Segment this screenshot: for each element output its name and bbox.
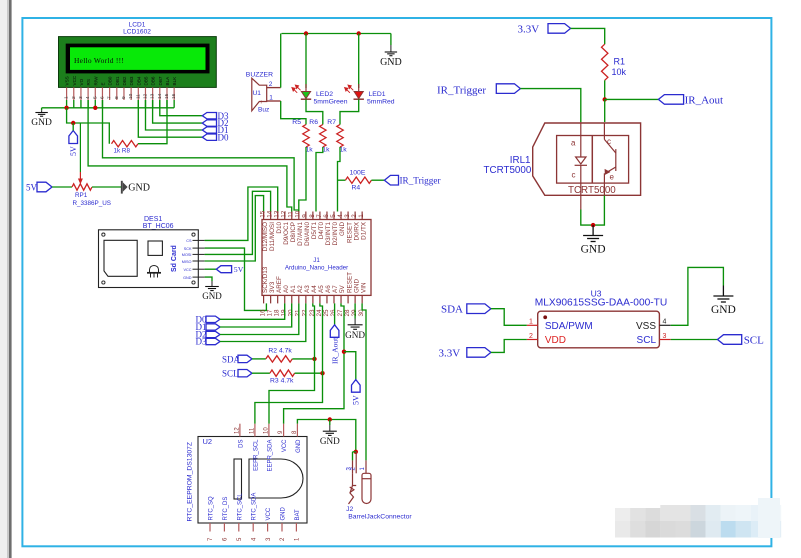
svg-text:25: 25: [323, 309, 330, 317]
svg-text:Hello World !!!: Hello World !!!: [74, 56, 124, 65]
svg-text:R5: R5: [292, 119, 301, 126]
J1 bottom pin 21 A2: [298, 295, 300, 303]
wire U3 SCL to port: [671, 339, 718, 341]
svg-text:18: 18: [274, 309, 281, 317]
svg-text:A1: A1: [290, 285, 297, 293]
resistor R3 4.7k: [270, 370, 295, 376]
svg-text:5V: 5V: [69, 146, 78, 156]
svg-text:D8/ICP: D8/ICP: [290, 222, 297, 242]
svg-text:D0: D0: [218, 132, 229, 142]
svg-text:8: 8: [309, 214, 316, 218]
svg-text:D0/RX: D0/RX: [353, 221, 360, 240]
junction LCD bus pin1: [64, 106, 68, 110]
wire J2 pins: [353, 451, 357, 453]
svg-text:c: c: [572, 171, 576, 180]
wire SDA to R2: [252, 358, 266, 360]
junction 5V net: [342, 350, 346, 354]
svg-text:100E: 100E: [350, 170, 366, 177]
J1 bottom pin 20 A1: [291, 295, 293, 303]
U2 top pin 8 GND: [296, 424, 298, 437]
J1 bottom pin 16 SCK/D13: [263, 295, 265, 303]
U2 bottom pin 7 RTC_SQ: [209, 523, 211, 532]
U2 top pin 10 EEPR_SDA: [268, 424, 270, 437]
svg-text:5V: 5V: [26, 183, 38, 193]
svg-text:RTC_SDA: RTC_SDA: [252, 493, 258, 521]
wire R5 to nano D6: [299, 147, 306, 212]
svg-text:5mmGreen: 5mmGreen: [314, 99, 348, 106]
svg-text:R3 4.7k: R3 4.7k: [270, 377, 294, 384]
J1 top pin 5 D2/INT0: [333, 212, 335, 220]
buzzer pin 1 stub: [267, 100, 281, 102]
svg-text:BAT: BAT: [295, 509, 301, 521]
svg-text:U2: U2: [203, 437, 213, 446]
port SCL (right): [718, 335, 742, 345]
LED1 5mmRed: [358, 34, 360, 89]
U3 pin 4 VSS: [659, 324, 670, 326]
junction ground rail: [328, 417, 332, 421]
svg-text:SCK: SCK: [184, 247, 192, 251]
svg-text:D11/MOSI: D11/MOSI: [269, 222, 276, 251]
svg-text:28: 28: [344, 309, 351, 317]
svg-text:9: 9: [121, 96, 127, 99]
wire D2 to nano A2: [220, 303, 299, 334]
svg-text:13: 13: [274, 210, 281, 218]
svg-text:7: 7: [316, 214, 323, 218]
svg-text:IR_Trigger: IR_Trigger: [437, 84, 486, 96]
wire LED1 cathode to R7: [340, 99, 359, 124]
SD module chip: [148, 241, 162, 255]
wire nano VIN to J2: [362, 303, 366, 460]
wire LCD ground bus: [42, 107, 175, 109]
port 5V (LCD): [69, 131, 78, 144]
svg-text:RTC_EEPROM_DS1307Z: RTC_EEPROM_DS1307Z: [187, 442, 194, 522]
wire D1 to nano A1: [220, 303, 292, 327]
window left edge strip: [0, 0, 8, 558]
svg-text:VCC: VCC: [183, 268, 191, 272]
SD card slot: [104, 240, 137, 276]
wire LCD pin drop: [152, 100, 154, 108]
J1 top pin 2 D0/RX: [354, 212, 356, 220]
svg-text:A4: A4: [311, 285, 318, 293]
svg-text:SCK/D13: SCK/D13: [262, 266, 269, 293]
svg-text:DB4: DB4: [136, 76, 141, 85]
port 5V (rotated): [352, 380, 361, 393]
svg-text:11: 11: [249, 427, 255, 434]
J1 bottom pin 19 A0: [284, 295, 286, 303]
junction 5V tap: [71, 121, 75, 125]
svg-text:R2 4.7k: R2 4.7k: [268, 348, 292, 355]
svg-text:R7: R7: [327, 119, 336, 126]
svg-text:10: 10: [128, 93, 134, 99]
svg-text:2: 2: [351, 214, 358, 218]
svg-text:R_3386P_US: R_3386P_US: [73, 200, 112, 207]
IC U2 RTC_EEPROM_DS1307Z body: [198, 437, 307, 524]
svg-text:1k R8: 1k R8: [114, 148, 131, 155]
wire SD CS to nano: [205, 187, 278, 240]
J1 bottom pin 27 5V: [340, 295, 342, 303]
U2 top pin 12 DS: [239, 424, 241, 437]
svg-text:27: 27: [337, 309, 344, 317]
wire SCL to R3: [252, 372, 270, 374]
svg-text:GND: GND: [128, 183, 150, 194]
wire R7 to nano D3 / R4: [338, 147, 341, 212]
svg-text:1: 1: [358, 214, 365, 218]
wire LCD E to nano bundle: [88, 100, 292, 212]
svg-text:12: 12: [142, 93, 148, 99]
svg-text:J2: J2: [346, 506, 353, 513]
wire LCD pin drop: [87, 100, 89, 108]
svg-text:J1: J1: [313, 257, 320, 264]
wire LCD pin drop: [66, 100, 68, 108]
svg-text:D12/MISO: D12/MISO: [262, 222, 269, 251]
svg-text:c: c: [607, 137, 611, 146]
U2 bottom pin 2 GND: [281, 523, 283, 532]
J1 bottom pin 22 A3: [305, 295, 307, 303]
J1 top pin 7 D4/T0: [319, 212, 321, 220]
svg-text:D10: D10: [276, 222, 283, 234]
svg-text:A2: A2: [297, 285, 304, 293]
port D2 (upper): [202, 120, 216, 126]
IC U3 MLX90615 body: [538, 311, 660, 348]
svg-text:12: 12: [281, 210, 288, 218]
svg-text:10: 10: [263, 427, 269, 434]
svg-text:BarrelJackConnector: BarrelJackConnector: [348, 514, 412, 521]
wire R8 to BLA pin15: [138, 100, 167, 144]
U2 bottom pin 3 VCC: [267, 523, 269, 532]
wire LCD pin drop: [101, 100, 103, 108]
svg-text:3.3V: 3.3V: [439, 348, 461, 360]
wire sensor cathode to ground: [580, 196, 582, 210]
svg-text:R/W: R/W: [93, 76, 98, 86]
wire RTC ground rail: [297, 420, 355, 452]
svg-text:GND: GND: [353, 279, 360, 293]
wire LCD pin drop: [80, 100, 82, 108]
svg-text:BLA: BLA: [165, 76, 170, 86]
junction LED1 rail: [357, 31, 361, 35]
svg-text:A6: A6: [325, 285, 332, 293]
svg-text:RS: RS: [86, 79, 91, 85]
svg-text:GND: GND: [320, 436, 340, 446]
svg-text:16: 16: [171, 93, 177, 99]
svg-text:BUZZER: BUZZER: [246, 72, 273, 79]
svg-text:2: 2: [269, 81, 273, 88]
J1 top pin 1 D1/TX: [361, 212, 363, 220]
svg-text:8: 8: [114, 96, 120, 99]
svg-text:+: +: [259, 99, 263, 106]
svg-text:9: 9: [302, 214, 309, 218]
wire R1 to junction: [604, 80, 606, 99]
wire LCD pin drop: [73, 100, 75, 108]
U2 bottom pin 5 RTC_SCL: [238, 523, 240, 532]
wire SD VCC to 5V port: [205, 268, 217, 270]
svg-text:3V3: 3V3: [269, 281, 276, 293]
J1 bottom pin 18 AREF: [277, 295, 279, 303]
svg-text:15: 15: [260, 210, 267, 218]
junction sensor ground: [591, 223, 595, 227]
svg-text:GND: GND: [339, 222, 346, 236]
svg-text:1: 1: [64, 96, 70, 99]
svg-text:Arduino_Nano_Header: Arduino_Nano_Header: [285, 265, 348, 272]
J1 bottom pin 26 A7: [333, 295, 335, 303]
connector J1 Arduino_Nano_Header body: [262, 220, 371, 296]
wire 3.3V to R1: [571, 28, 605, 44]
J1 top pin 10 D7/AIN1: [298, 212, 300, 220]
wire R2 to junction: [292, 358, 314, 360]
LED2 5mmGreen: [305, 34, 307, 89]
wire buzzer pin1 to R5: [281, 101, 306, 125]
svg-text:5: 5: [330, 214, 337, 218]
svg-text:D3: D3: [196, 337, 207, 347]
J1 top pin 14 D11/MOSI: [270, 212, 272, 220]
svg-text:MISO: MISO: [182, 260, 192, 264]
svg-text:GND: GND: [345, 330, 365, 340]
svg-text:11: 11: [288, 211, 295, 218]
wire LED2 cathode to R6: [306, 99, 323, 124]
wire junction down to sensor: [604, 99, 606, 122]
junction J2: [354, 450, 358, 454]
svg-text:6: 6: [99, 96, 105, 99]
LCD screen: [70, 47, 206, 70]
svg-text:DB5: DB5: [143, 76, 148, 85]
J1 bottom pin 17 3V3: [270, 295, 272, 303]
svg-text:10: 10: [295, 210, 302, 218]
svg-text:SDA: SDA: [441, 304, 463, 316]
blurred watermark: [615, 508, 630, 524]
wire nano A5 to RTC EEPR_SCL: [255, 303, 323, 423]
svg-text:RTC_DS: RTC_DS: [223, 497, 229, 521]
ground rail GND symbol: [329, 420, 331, 426]
J1 top pin 13 D10: [277, 212, 279, 220]
wire D3 to nano A3: [220, 303, 306, 341]
svg-text:VCC: VCC: [266, 507, 272, 520]
junction LED2 rail: [304, 31, 308, 35]
U2 bottom pin 4 RTC_SDA: [252, 523, 254, 532]
svg-text:VO: VO: [79, 78, 84, 85]
svg-text:10k: 10k: [612, 67, 627, 77]
svg-text:GND: GND: [202, 291, 222, 301]
svg-text:15: 15: [164, 93, 170, 99]
wire DB4 to D0: [138, 100, 202, 137]
svg-text:TCRT5000: TCRT5000: [484, 165, 532, 176]
U2 bottom pin 1 BAT: [295, 523, 297, 532]
svg-text:RESET: RESET: [346, 272, 353, 293]
svg-text:D3/INT1: D3/INT1: [325, 222, 332, 246]
wire RP1 to GND: [92, 186, 122, 188]
wire LCD pin drop: [159, 100, 161, 108]
svg-text:5V: 5V: [234, 265, 244, 274]
wire DB7 to D3: [160, 100, 203, 116]
svg-text:TCRT5000: TCRT5000: [568, 185, 616, 196]
U2 bottom pin 6 RTC_DS: [223, 523, 225, 532]
wire SDA to U3 pin1: [491, 309, 527, 326]
svg-text:VSS: VSS: [636, 321, 656, 332]
J1 top pin 12 D9/OC1: [284, 212, 286, 220]
J1 top pin 6 D3/INT1: [326, 212, 328, 220]
ground sensor GND symbol: [592, 225, 594, 235]
svg-text:LCD1602: LCD1602: [123, 28, 151, 35]
wire nano 5V net: [284, 303, 344, 423]
svg-text:RP1: RP1: [75, 192, 88, 199]
sensor IRL1 TCRT5000 outline: [533, 123, 641, 195]
svg-text:2: 2: [71, 96, 77, 99]
U3 pin1 mark: [543, 315, 547, 319]
svg-text:14: 14: [267, 210, 274, 218]
U2 top pin 9 VCC: [283, 424, 285, 437]
svg-text:14: 14: [157, 93, 163, 99]
svg-text:4: 4: [85, 96, 91, 99]
U3 pin 3 SCL: [659, 339, 670, 341]
svg-text:VDD: VDD: [545, 335, 566, 346]
wire LCD RS to nano bundle: [103, 100, 299, 212]
svg-text:13: 13: [150, 93, 156, 99]
svg-text:U1: U1: [253, 90, 262, 97]
J1 top pin 8 D5/T1: [312, 212, 314, 220]
svg-text:RTC_SCL: RTC_SCL: [237, 493, 243, 521]
svg-text:24: 24: [316, 309, 323, 317]
svg-text:Buz: Buz: [258, 107, 269, 114]
U2 top pin 11 EEPR_SCL: [254, 424, 256, 437]
svg-text:R1: R1: [614, 57, 626, 67]
wire D0 to nano A0: [220, 303, 285, 319]
connector J2 BarrelJackConnector: [349, 452, 372, 504]
svg-text:RTC_SQ: RTC_SQ: [209, 496, 215, 521]
wire SD MOSI to nano: [205, 191, 271, 254]
TCRT5000 inner cells: [557, 136, 629, 184]
resistor R8 1k: [112, 141, 139, 147]
ground RP1 signal GND: [121, 181, 123, 194]
svg-text:GND: GND: [296, 439, 302, 453]
wire SD SCK to nano pin16: [205, 248, 267, 310]
wire LCD pin drop: [144, 100, 146, 108]
svg-text:2: 2: [529, 333, 533, 340]
J1 bottom pin 25 A6: [326, 295, 328, 303]
svg-text:VIN: VIN: [360, 282, 367, 293]
wire SD GND: [205, 277, 212, 281]
wire R4 to IR_Trigger port: [371, 179, 384, 181]
wire 5V branch to port: [344, 352, 356, 380]
svg-text:SCL: SCL: [744, 334, 764, 346]
svg-text:e: e: [610, 173, 615, 182]
svg-text:EEPR_SDA: EEPR_SDA: [267, 440, 273, 472]
junction SCL: [320, 371, 324, 375]
svg-text:A7: A7: [332, 285, 339, 293]
svg-text:7: 7: [107, 96, 113, 99]
svg-text:A0: A0: [283, 285, 290, 293]
svg-text:GND: GND: [380, 57, 402, 68]
junction LCD bus pin5: [93, 106, 97, 110]
svg-text:VSS: VSS: [65, 76, 70, 85]
wire nano A4 to RTC EEPR_SDA: [269, 303, 315, 423]
svg-text:CS: CS: [186, 239, 192, 243]
svg-text:A5: A5: [318, 285, 325, 293]
svg-text:BT_HC06: BT_HC06: [143, 223, 174, 230]
svg-text:D9/OC1: D9/OC1: [283, 222, 290, 245]
svg-text:17: 17: [267, 309, 274, 317]
wire 5V to RP1: [52, 186, 72, 188]
svg-text:5mmRed: 5mmRed: [367, 99, 395, 106]
svg-text:5: 5: [92, 96, 98, 99]
svg-text:5V: 5V: [339, 284, 346, 293]
TCRT5000 emitter diode: [575, 122, 587, 195]
J1 bottom pin 29 GND: [354, 295, 356, 303]
U3 pin 2 VDD: [527, 339, 538, 341]
port D3 (upper): [202, 113, 216, 119]
svg-text:D2/INT0: D2/INT0: [332, 222, 339, 246]
svg-text:SDA/PWM: SDA/PWM: [545, 321, 593, 332]
svg-text:D5/T1: D5/T1: [311, 222, 318, 240]
LCD LCD1602 body: [59, 37, 217, 88]
wire LCD pin drop: [94, 100, 96, 108]
ground LCD GND symbol: [41, 108, 43, 110]
U3 pin 1 SDA/PWM: [527, 324, 538, 326]
svg-text:26: 26: [330, 309, 337, 317]
junction IR_Aout: [603, 97, 607, 101]
wire R6 to nano D5: [316, 147, 323, 212]
svg-text:12: 12: [234, 427, 240, 434]
J1 top pin 3 RESET: [347, 212, 349, 220]
SD module mounting holes: [102, 233, 105, 236]
wire top power rail: [282, 33, 391, 35]
svg-text:a: a: [571, 139, 576, 148]
port D0 (upper): [202, 134, 216, 140]
wire DB5 to D1: [146, 100, 203, 130]
svg-text:MOSI: MOSI: [182, 253, 192, 257]
svg-text:EEPR_SCL: EEPR_SCL: [253, 439, 259, 471]
svg-text:R4: R4: [352, 185, 361, 192]
port IR_Trigger (left): [384, 175, 398, 185]
J1 bottom pin 23 A4: [312, 295, 314, 303]
SD card module body: [99, 230, 199, 288]
svg-text:3.3V: 3.3V: [518, 24, 540, 36]
J1 bottom pin 30 VIN: [361, 295, 363, 303]
J1 top pin 4 GND: [340, 212, 342, 220]
wire LCD VCC to 5V: [67, 108, 110, 144]
svg-text:LED1: LED1: [369, 91, 386, 98]
junction SDA: [312, 357, 316, 361]
port D1 (upper): [202, 127, 216, 133]
port IR_Aout (rotated): [334, 303, 336, 324]
wire DB6 to D2: [153, 100, 203, 123]
J1 top pin 9 D6/AIN0: [305, 212, 307, 220]
svg-text:LED2: LED2: [316, 91, 333, 98]
J1 bottom pin 28 RESET: [347, 295, 349, 303]
svg-text:5V: 5V: [351, 395, 360, 405]
J1 top pin 11 D8/ICP: [291, 212, 293, 220]
svg-text:IR_Aout: IR_Aout: [685, 94, 724, 106]
svg-text:VCC: VCC: [282, 439, 288, 452]
svg-text:6: 6: [323, 214, 330, 218]
svg-text:DB2: DB2: [122, 76, 127, 85]
wire SD MISO to nano: [205, 196, 264, 261]
wire U3 VSS to ground: [671, 267, 724, 325]
svg-text:Sd Card: Sd Card: [171, 245, 178, 272]
wire sensor emitter to ground: [593, 196, 604, 226]
J1 bottom pin 24 A5: [319, 295, 321, 303]
svg-text:D4/T0: D4/T0: [318, 222, 325, 240]
svg-text:SCL: SCL: [637, 335, 657, 346]
svg-text:16: 16: [260, 309, 267, 317]
svg-text:1: 1: [269, 95, 273, 102]
svg-text:1: 1: [529, 318, 533, 325]
svg-text:SCL: SCL: [222, 369, 239, 379]
wire IR_Trigger to sensor: [520, 89, 580, 123]
svg-text:IR_Aout: IR_Aout: [330, 337, 339, 364]
svg-text:GND: GND: [281, 507, 287, 521]
svg-text:GND: GND: [31, 118, 52, 128]
ground U3 GND symbol: [722, 286, 724, 297]
svg-text:DB7: DB7: [158, 76, 163, 85]
svg-text:4: 4: [663, 318, 667, 325]
